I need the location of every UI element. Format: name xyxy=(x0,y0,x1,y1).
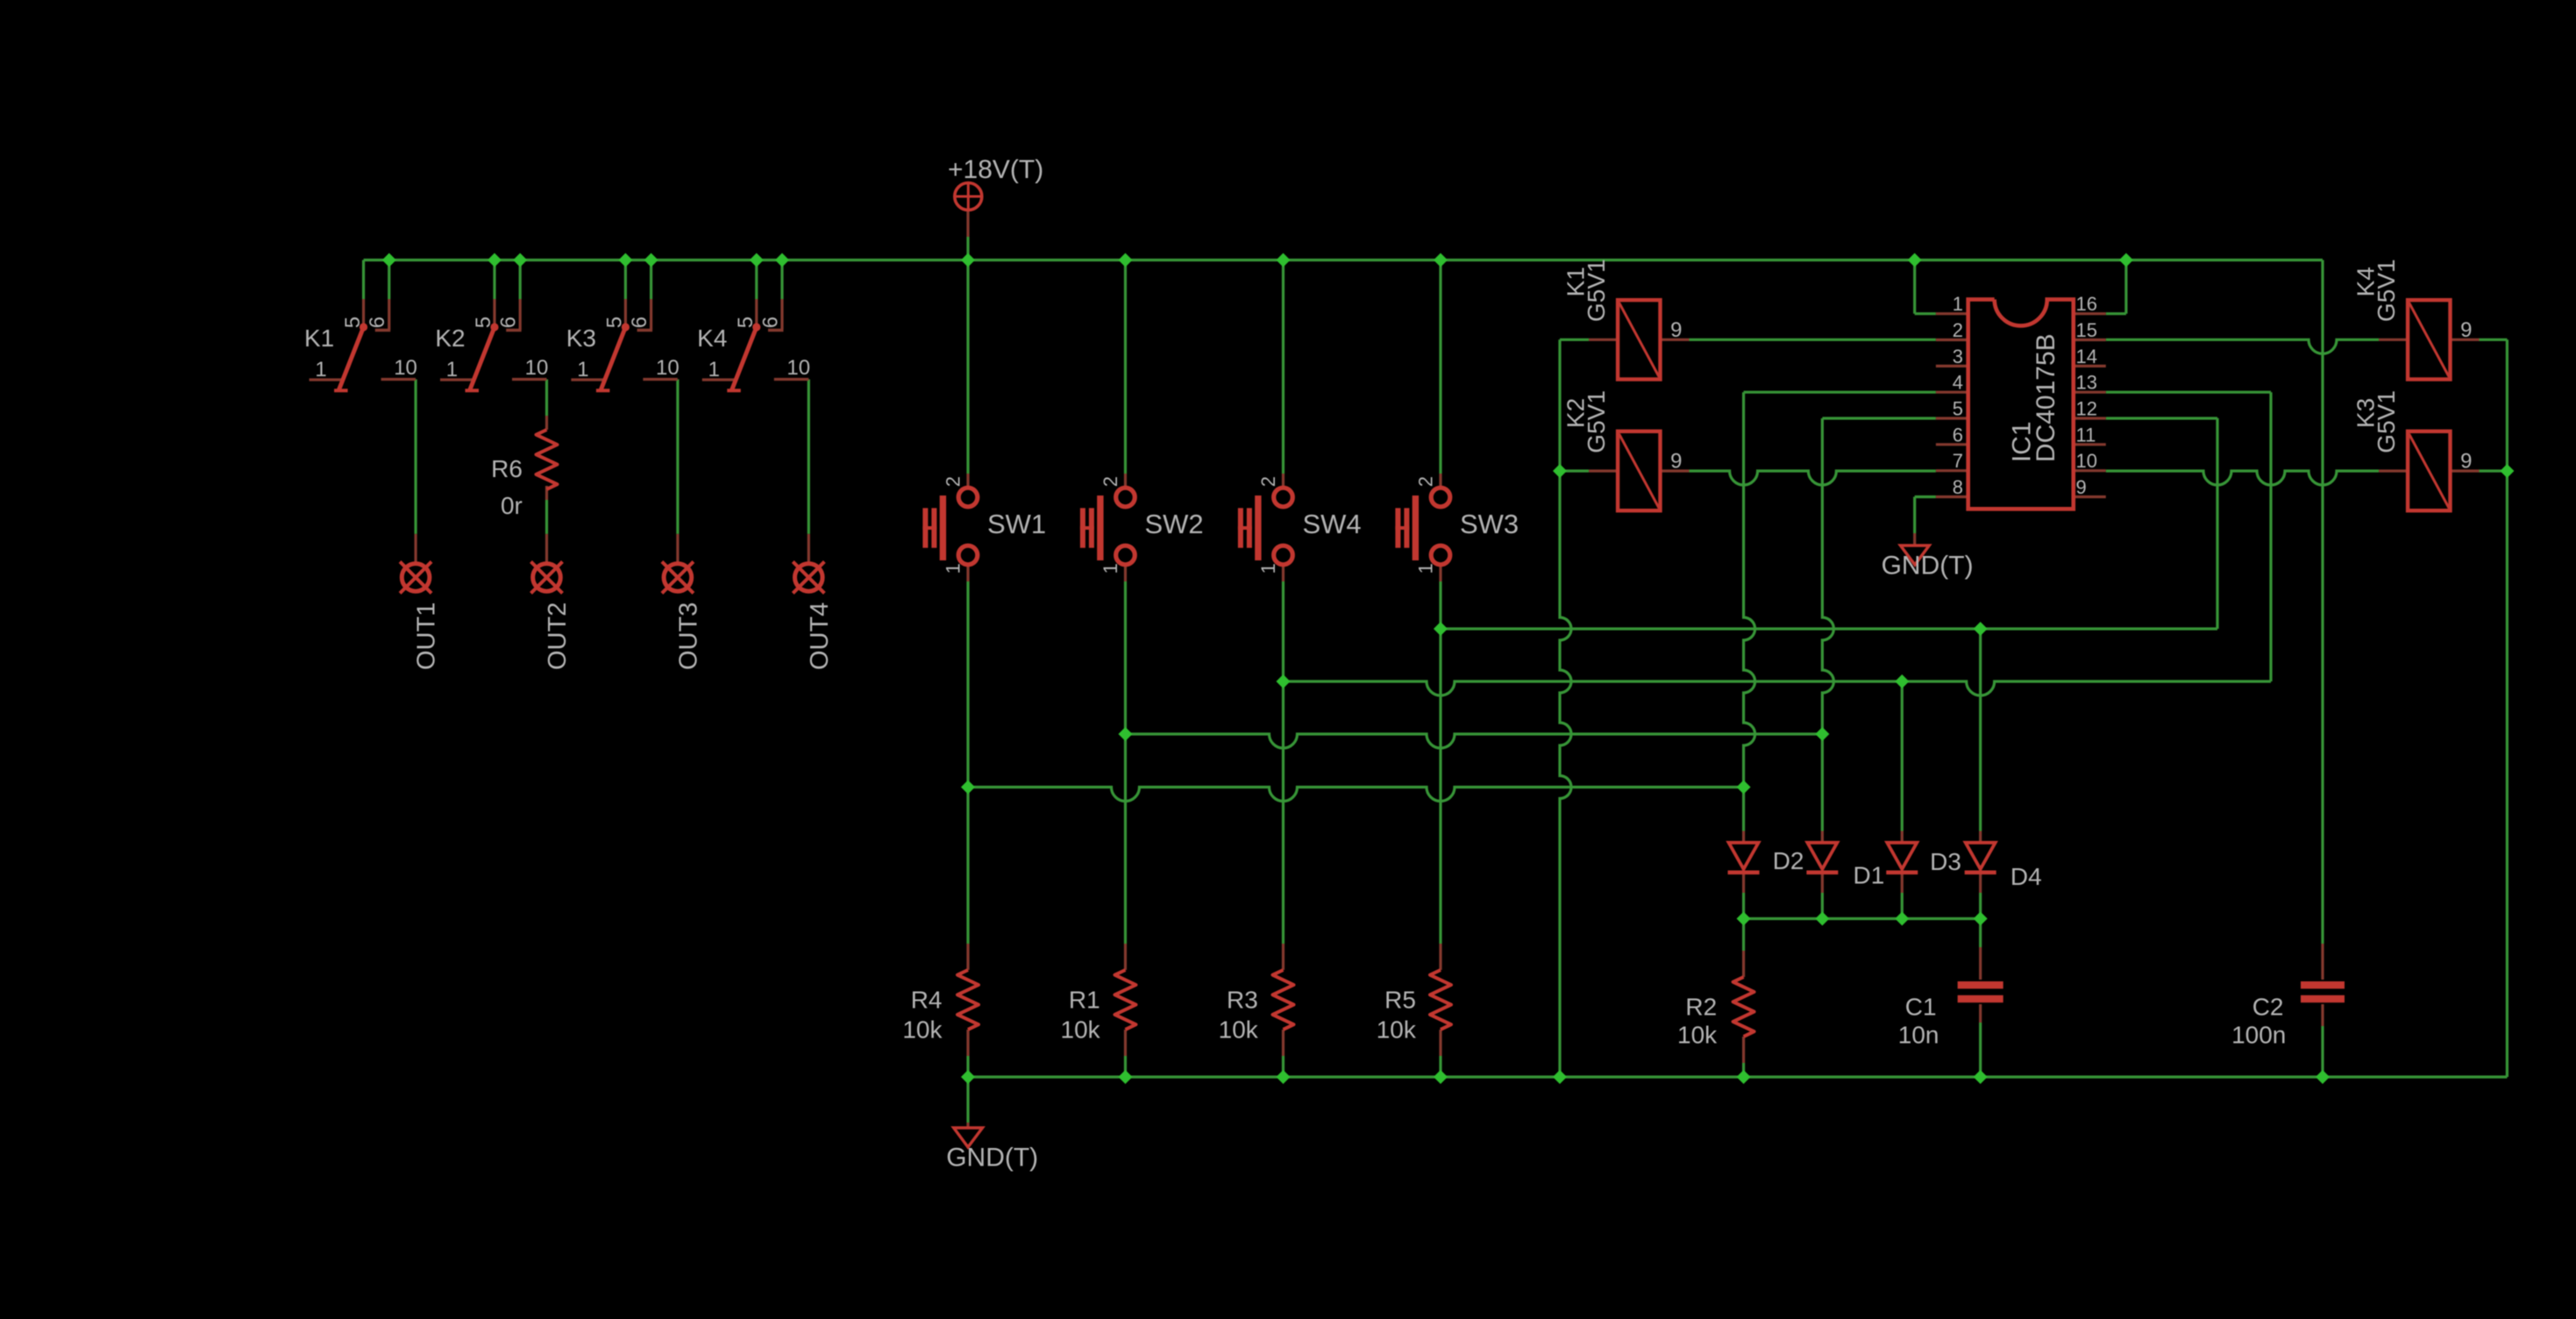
svg-text:14: 14 xyxy=(2076,346,2097,367)
svg-text:5: 5 xyxy=(603,317,627,328)
svg-text:2: 2 xyxy=(1257,476,1279,487)
svg-text:R3: R3 xyxy=(1227,986,1258,1013)
svg-text:6: 6 xyxy=(366,317,389,328)
svg-text:12: 12 xyxy=(2076,398,2097,420)
svg-text:10: 10 xyxy=(2076,450,2097,472)
svg-text:G5V1: G5V1 xyxy=(1583,390,1610,453)
svg-text:100n: 100n xyxy=(2231,1022,2286,1049)
svg-text:SW2: SW2 xyxy=(1145,509,1204,539)
svg-text:9: 9 xyxy=(1670,318,1682,342)
svg-text:10k: 10k xyxy=(1219,1016,1259,1044)
svg-text:1: 1 xyxy=(1257,563,1279,574)
svg-text:5: 5 xyxy=(341,317,365,328)
svg-text:1: 1 xyxy=(708,358,720,381)
svg-text:1: 1 xyxy=(577,358,588,381)
svg-text:C2: C2 xyxy=(2252,994,2284,1021)
svg-text:4: 4 xyxy=(1953,372,1963,394)
svg-text:1: 1 xyxy=(1953,293,1963,315)
svg-text:1: 1 xyxy=(315,358,326,381)
svg-text:9: 9 xyxy=(2460,450,2472,474)
svg-text:GND(T): GND(T) xyxy=(1882,552,1974,581)
svg-text:5: 5 xyxy=(472,317,495,328)
svg-text:10k: 10k xyxy=(1061,1016,1101,1044)
svg-text:6: 6 xyxy=(758,317,782,328)
svg-text:D1: D1 xyxy=(1854,862,1885,889)
svg-text:K4: K4 xyxy=(697,324,727,352)
svg-text:2: 2 xyxy=(1099,476,1121,487)
svg-text:R1: R1 xyxy=(1069,986,1100,1013)
svg-text:3: 3 xyxy=(1953,346,1963,367)
svg-text:10k: 10k xyxy=(1677,1022,1718,1049)
svg-text:1: 1 xyxy=(943,563,964,574)
svg-text:10: 10 xyxy=(786,356,810,380)
svg-text:9: 9 xyxy=(2460,318,2472,342)
svg-text:1: 1 xyxy=(1099,563,1121,574)
svg-text:C1: C1 xyxy=(1905,994,1937,1021)
svg-text:6: 6 xyxy=(628,317,651,328)
svg-text:10n: 10n xyxy=(1898,1022,1939,1049)
svg-text:DC40175B: DC40175B xyxy=(2032,333,2060,462)
svg-text:R2: R2 xyxy=(1685,994,1717,1021)
svg-text:6: 6 xyxy=(497,317,521,328)
svg-text:R6: R6 xyxy=(491,455,523,482)
svg-text:0r: 0r xyxy=(501,492,523,519)
svg-text:10: 10 xyxy=(525,356,549,380)
svg-text:2: 2 xyxy=(943,476,964,487)
svg-text:9: 9 xyxy=(1670,450,1682,474)
svg-text:+18V(T): +18V(T) xyxy=(948,155,1043,184)
svg-text:R4: R4 xyxy=(911,986,943,1013)
svg-text:11: 11 xyxy=(2076,424,2096,446)
svg-text:D2: D2 xyxy=(1773,847,1804,874)
svg-text:R5: R5 xyxy=(1384,986,1416,1013)
svg-text:13: 13 xyxy=(2076,372,2097,394)
svg-text:9: 9 xyxy=(2076,476,2087,498)
svg-text:K1: K1 xyxy=(304,324,334,352)
svg-text:GND(T): GND(T) xyxy=(946,1144,1038,1173)
svg-text:8: 8 xyxy=(1953,476,1963,498)
svg-text:1: 1 xyxy=(446,358,458,381)
svg-text:OUT1: OUT1 xyxy=(413,602,441,670)
svg-text:10: 10 xyxy=(394,356,417,380)
svg-text:G5V1: G5V1 xyxy=(2373,390,2400,453)
svg-text:K3: K3 xyxy=(566,324,596,352)
svg-text:5: 5 xyxy=(1953,398,1963,420)
svg-text:2: 2 xyxy=(1953,319,1963,341)
svg-text:2: 2 xyxy=(1415,476,1437,487)
svg-text:K2: K2 xyxy=(435,324,465,352)
svg-text:1: 1 xyxy=(1415,563,1437,574)
svg-text:OUT4: OUT4 xyxy=(806,602,834,670)
svg-text:6: 6 xyxy=(1953,424,1963,446)
svg-text:OUT2: OUT2 xyxy=(544,602,572,670)
svg-text:SW4: SW4 xyxy=(1303,509,1362,539)
svg-text:5: 5 xyxy=(734,317,758,328)
svg-text:16: 16 xyxy=(2076,293,2097,315)
svg-text:OUT3: OUT3 xyxy=(674,602,702,670)
svg-text:G5V1: G5V1 xyxy=(1583,259,1610,322)
svg-text:10k: 10k xyxy=(902,1016,943,1044)
svg-text:D4: D4 xyxy=(2010,863,2042,890)
svg-text:SW3: SW3 xyxy=(1460,509,1519,539)
svg-text:10: 10 xyxy=(656,356,680,380)
svg-text:15: 15 xyxy=(2076,319,2097,341)
svg-text:D3: D3 xyxy=(1930,848,1961,875)
svg-text:G5V1: G5V1 xyxy=(2373,259,2400,322)
svg-text:SW1: SW1 xyxy=(987,509,1046,539)
svg-text:7: 7 xyxy=(1953,450,1963,472)
svg-text:10k: 10k xyxy=(1377,1016,1417,1044)
